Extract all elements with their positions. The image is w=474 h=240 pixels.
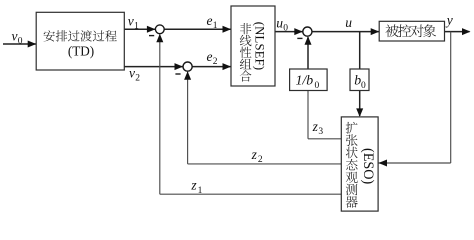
svg-text:1: 1 [213,21,218,31]
minus sign at sum1 [149,35,154,37]
block ESO 扩张状态观测器 [341,117,378,211]
svg-text:v: v [12,29,18,44]
wire b0 to ESO top [359,91,361,117]
arrow into sum2 [175,63,184,70]
block NLSEF 非线性组合 [231,6,275,86]
svg-text:e: e [207,13,213,28]
svg-text:2: 2 [213,57,218,67]
arrow y output [462,28,471,35]
arrow 1/b0 into sum3 [305,36,312,45]
minus sign at sum2 [175,73,180,75]
wire y feedback into ESO right [379,162,451,164]
block 1/b0 [290,69,328,91]
summing junction sum1 [155,25,164,34]
wire z3 vertical to 1/b0 [307,91,309,139]
arrow e2 into NLSEF [223,63,232,70]
svg-text:(ESO): (ESO) [360,148,376,185]
wire u: sum3 to plant [312,31,379,33]
arrow b0 into ESO [356,108,363,117]
text 扩张状态观测器 vertical [346,122,358,208]
svg-text:u: u [276,15,283,30]
svg-text:2: 2 [135,74,140,84]
svg-text:0: 0 [361,81,366,91]
block b0 [350,69,369,91]
svg-text:1: 1 [198,186,203,196]
text 非线性组合 vertical [240,23,252,82]
wire z1 horizontal from ESO [160,193,341,195]
svg-text:0: 0 [315,81,320,91]
wire v2: TD to sum2 [124,66,183,68]
wire z1 vertical to sum1 [159,35,161,195]
arrow into sum1 [147,26,156,33]
arrow z2 into sum2 [184,71,191,80]
block plant 被控对象 [379,21,444,41]
wire u0: NLSEF to sum3 [275,31,304,33]
arrow y into ESO right [379,160,388,167]
svg-text:3: 3 [318,127,323,137]
text 被控对象 [385,24,436,37]
svg-text:u: u [345,15,352,30]
block TD 安排过渡过程 [36,12,124,70]
minus sign at sum3 [297,37,302,39]
svg-text:z: z [190,178,197,193]
summing junction sum3 [303,27,312,36]
wire v1: TD to sum1 [124,28,156,30]
text 安排过渡过程 [44,30,117,42]
svg-text:e: e [207,49,213,64]
wire z3 horizontal from ESO [308,138,341,140]
wire 1/b0 up to sum3 [307,37,309,69]
wire e2: sum2 to NLSEF [192,66,230,68]
wire y output [445,31,470,33]
svg-text:v: v [128,14,134,29]
wire z2 vertical to sum2 [187,72,189,164]
svg-text:0: 0 [283,24,288,34]
svg-text:1/b: 1/b [296,73,314,88]
svg-text:2: 2 [258,155,263,165]
arrow e1 into NLSEF [223,26,232,33]
wire z2 horizontal from ESO [188,163,342,165]
wire y branch down [450,32,452,163]
svg-text:1: 1 [134,22,139,32]
svg-text:0: 0 [18,37,23,47]
svg-text:(TD): (TD) [68,43,94,58]
arrow u into plant [371,28,380,35]
wire v0 input [3,43,36,45]
arrow u0 into sum3 [294,28,303,35]
svg-text:y: y [445,13,453,28]
svg-text:z: z [251,147,258,162]
svg-text:v: v [129,66,135,81]
wire u branch down to b0 [359,32,361,69]
arrow into TD [28,41,37,48]
svg-text:(NLSEF): (NLSEF) [253,22,267,71]
summing junction sum2 [183,62,192,71]
arrow z1 into sum1 [156,34,163,43]
wire e1: sum1 to NLSEF [164,28,230,30]
